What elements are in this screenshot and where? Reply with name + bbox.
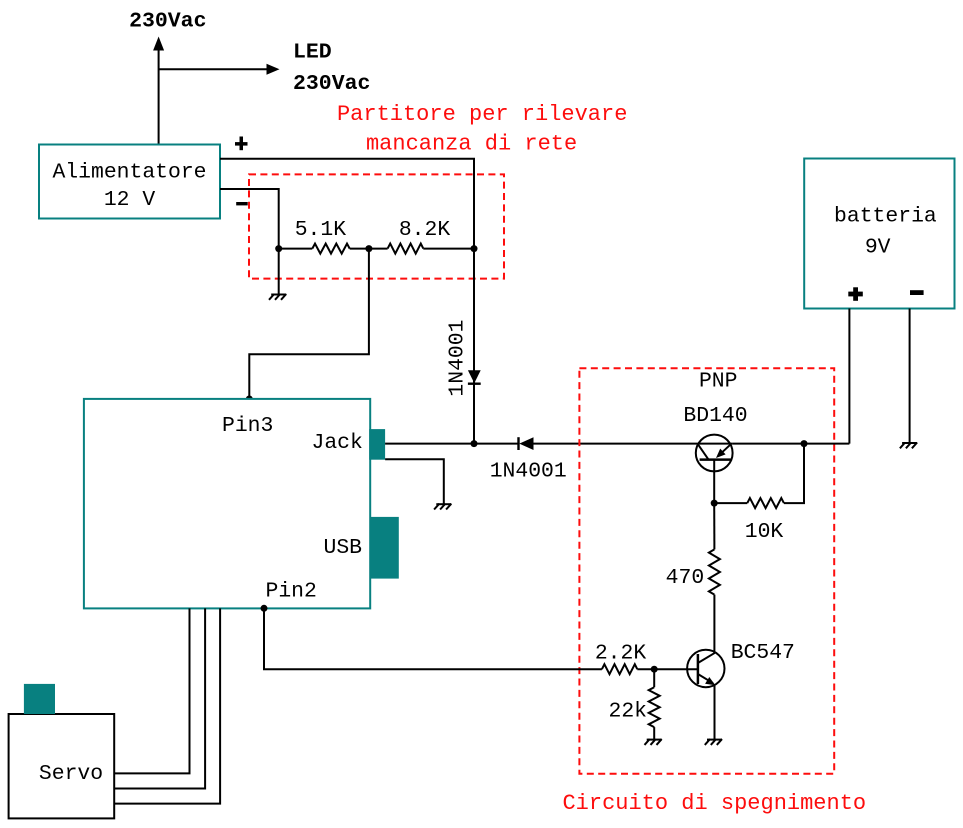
ground divider (269, 294, 286, 300)
mcu box (84, 399, 370, 609)
node jack diode (471, 440, 478, 447)
wire servo 1 (114, 608, 189, 773)
svg-text:PNP: PNP (699, 370, 738, 394)
wire node to diode D2 (474, 443, 518, 445)
svg-text:1N4001: 1N4001 (446, 320, 470, 397)
wire divider tap to Pin3 (249, 249, 369, 399)
svg-text:1N4001: 1N4001 (490, 459, 567, 483)
svg-text:10K: 10K (745, 520, 784, 544)
svg-text:230Vac: 230Vac (129, 10, 206, 34)
node Pin3 (246, 396, 253, 403)
svg-text:470: 470 (666, 566, 705, 590)
wire node to diode D1 (473, 249, 475, 444)
svg-text:mancanza di rete: mancanza di rete (366, 132, 577, 157)
wire Q1 base down (713, 460, 715, 504)
ground Q2 (705, 739, 722, 745)
divider dashed box Partitore (249, 174, 504, 278)
resistor R3 10K (747, 498, 784, 508)
resistor R1 5.1K (312, 244, 349, 254)
node Q1 base (711, 500, 718, 507)
label plus batteria (848, 287, 863, 301)
ground jack (434, 504, 451, 510)
servo box (9, 714, 115, 818)
jack connector (369, 429, 385, 460)
transistor Q1 BD140 PNP (696, 435, 733, 472)
ground R6 (645, 739, 662, 745)
svg-text:LED: LED (293, 41, 332, 65)
wire alimentatore plus to node (220, 159, 474, 249)
wire Q1 emitter-collector through (696, 443, 732, 445)
wire servo 2 (114, 608, 205, 788)
wire diode D2 to transistor Q1 (534, 443, 697, 445)
node Q1 right (801, 440, 808, 447)
wire servo 3 (114, 608, 220, 803)
svg-text:BD140: BD140 (683, 404, 747, 428)
svg-text:8.2K: 8.2K (399, 218, 451, 242)
shutdown dashed box Circuito (579, 368, 834, 773)
label minus alimentatore (236, 202, 248, 205)
node mid divider (365, 245, 372, 252)
usb connector (370, 517, 399, 579)
wire Pin2 to R5 (264, 608, 602, 669)
svg-text:22k: 22k (608, 700, 647, 724)
svg-text:12 V: 12 V (104, 188, 156, 212)
svg-text:Circuito di spegnimento: Circuito di spegnimento (562, 791, 866, 816)
wire divider row (279, 248, 313, 250)
svg-text:BC547: BC547 (731, 641, 795, 665)
wire jack aux to ground (385, 459, 444, 504)
resistor R4 470 (709, 549, 720, 594)
svg-text:5.1K: 5.1K (295, 218, 347, 242)
resistor R6 22k (653, 669, 655, 687)
svg-text:USB: USB (324, 536, 363, 560)
wire Q2 emitter to ground (714, 684, 716, 739)
node base Q2 (651, 666, 658, 673)
svg-text:batteria: batteria (834, 205, 937, 229)
wire battery plus (848, 309, 850, 444)
wire alimentatore minus to divider (220, 189, 279, 249)
svg-text:Servo: Servo (39, 762, 103, 786)
svg-text:Pin2: Pin2 (266, 579, 317, 603)
wire base to R4 (713, 503, 715, 549)
wire (423, 248, 474, 250)
svg-text:Jack: Jack (312, 431, 363, 455)
node Pin2 (261, 605, 268, 612)
resistor R5 2.2K (602, 664, 637, 674)
wire R4 to Q2 collector (713, 595, 715, 653)
servo connector (24, 684, 55, 714)
svg-text:230Vac: 230Vac (293, 72, 370, 96)
battery box 9V (804, 159, 954, 309)
svg-text:Pin3: Pin3 (222, 414, 273, 438)
wire R5 to Q2 base (637, 668, 698, 670)
label plus alimentatore (235, 137, 248, 151)
resistor R2 8.2K (388, 244, 424, 254)
wire jack to diode node (385, 443, 474, 445)
svg-text:2.2K: 2.2K (595, 642, 647, 666)
wire mains arrow up (158, 49, 160, 145)
wire LED arrow (159, 68, 269, 70)
wire (350, 248, 388, 250)
ground battery (900, 443, 917, 449)
node left divider (275, 245, 282, 252)
svg-text:Alimentatore: Alimentatore (52, 161, 206, 185)
node right divider (471, 245, 478, 252)
power supply U Alimentatore 12V (39, 145, 220, 219)
transistor Q2 BC547 NPN (687, 650, 724, 687)
wire battery minus to ground (909, 309, 911, 444)
label minus batteria (910, 290, 924, 295)
wire divider to ground (278, 249, 280, 295)
svg-text:Partitore per rilevare: Partitore per rilevare (337, 102, 627, 127)
diode D1 1N4001 vertical (468, 370, 481, 383)
diode D2 1N4001 horizontal (517, 437, 519, 450)
svg-text:9V: 9V (865, 236, 891, 260)
